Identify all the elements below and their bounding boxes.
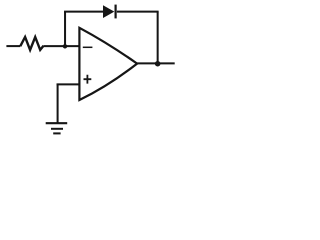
op-amp U1 — [79, 28, 137, 100]
diode cathode bar — [114, 5, 116, 19]
ground — [46, 123, 67, 133]
wire input lead left — [6, 45, 20, 47]
op-amp triangle body — [79, 28, 137, 100]
node junction at inverting input — [63, 44, 67, 48]
resistor R1 — [20, 37, 43, 50]
wire feedback right vertical — [157, 12, 159, 64]
diode anode triangle — [103, 5, 114, 18]
wire output — [137, 62, 175, 64]
node output junction — [155, 61, 161, 66]
ground bar middle — [51, 128, 63, 130]
ground bar top — [46, 122, 67, 124]
op-amp inverting input marker (minus) — [83, 46, 93, 48]
wire feedback left vertical — [64, 12, 66, 47]
ground bar bottom — [53, 132, 60, 134]
diode D1 — [103, 5, 116, 19]
op-amp non-inverting input marker (plus) — [84, 75, 92, 84]
wire feedback top left horizontal — [64, 11, 103, 13]
wire to ground — [57, 84, 59, 123]
wire resistor to inverting input — [44, 45, 79, 47]
wire feedback top right horizontal — [117, 11, 159, 13]
wire non-inverting input — [57, 83, 80, 85]
